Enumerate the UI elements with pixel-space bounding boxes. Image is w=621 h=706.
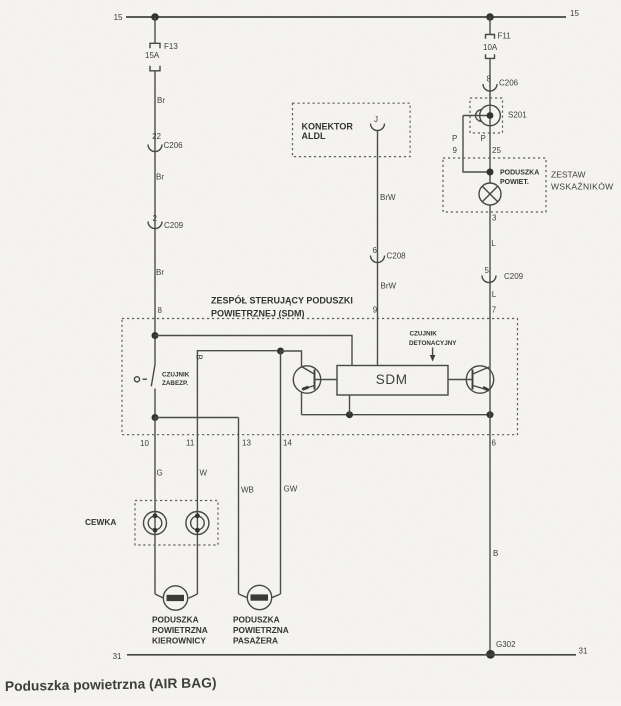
ZESTAW WSKAZNIKOW dashed box (instrument cluster) (443, 158, 546, 212)
label + arrow: CZUJNIK DETONACYJNY (409, 331, 457, 362)
node: ground junction G302 (486, 650, 495, 659)
svg-text:C209: C209 (164, 221, 184, 230)
wire BrW: ALDL J down to SDM pin 9 (377, 131, 379, 319)
svg-text:S201: S201 (508, 111, 527, 120)
svg-text:B: B (493, 549, 498, 558)
svg-text:GW: GW (284, 485, 298, 494)
svg-text:9: 9 (453, 146, 458, 155)
svg-text:31: 31 (113, 652, 122, 661)
svg-text:CZUJNIK: CZUJNIK (410, 331, 438, 338)
svg-text:F13: F13 (164, 42, 178, 51)
svg-text:SDM: SDM (376, 372, 408, 387)
lamp: airbag warning indicator (479, 183, 501, 205)
switch: safety sensor CZUJNIK ZABEZP. (134, 365, 189, 388)
wire: SDM block bottom stub (349, 395, 351, 415)
svg-text:PASAŻERA: PASAŻERA (233, 636, 278, 646)
coil L1 (144, 512, 167, 535)
wire: bottom rail inside SDM (302, 414, 491, 416)
svg-text:BrW: BrW (380, 193, 396, 202)
node: junction bottom rail right (487, 411, 494, 418)
wire: pin 13 lead down to squib 2 (238, 418, 240, 595)
wire: SDM pin 7 through Q2 to rail (489, 319, 491, 415)
svg-text:WB: WB (241, 486, 254, 495)
svg-text:7: 7 (492, 306, 497, 315)
node: junction pin14/Q1 (277, 348, 284, 355)
transistor Q1 (293, 366, 320, 393)
connector C209 pin 2 (148, 214, 184, 230)
svg-text:POWIETRZNA: POWIETRZNA (152, 625, 208, 635)
wire: bus15 to fuse F13 (154, 17, 156, 43)
connector C209 pin 5 (482, 266, 524, 283)
KONEKTOR ALDL dashed box (293, 103, 411, 156)
svg-text:C209: C209 (504, 272, 524, 281)
wire: SDM block to Q2 base (448, 379, 473, 381)
svg-text:10: 10 (140, 439, 149, 448)
svg-text:Br: Br (157, 96, 165, 105)
node: junction on bus 15 right (486, 13, 494, 21)
svg-text:Br: Br (156, 268, 164, 277)
svg-text:G302: G302 (496, 640, 516, 649)
svg-text:POWIET.: POWIET. (500, 179, 529, 186)
svg-text:ZABEZP.: ZABEZP. (162, 380, 188, 387)
svg-text:POWIETRZNA: POWIETRZNA (233, 625, 289, 635)
wire: pin 11 lead up and right to junction (197, 351, 280, 594)
svg-text:WSKAŹNIKÓW: WSKAŹNIKÓW (551, 182, 614, 192)
squib: passenger airbag igniter (239, 585, 281, 609)
net 15 bus (114, 9, 580, 22)
svg-text:PODUSZKA: PODUSZKA (233, 615, 280, 625)
connector C208 pin 6 (371, 246, 407, 263)
node: junction lamp feed (487, 169, 494, 176)
svg-text:8: 8 (158, 306, 163, 315)
node: junction on bus 15 left (151, 13, 159, 21)
wire: Q1 emitter down to bottom rail (301, 392, 303, 415)
wire: ALDL lead entering SDM block (pin 9) (377, 319, 379, 366)
svg-text:C206: C206 (164, 141, 184, 150)
svg-text:2: 2 (153, 214, 158, 223)
wire Br: fuse F13 down through connectors to SDM pin 8 (154, 71, 156, 365)
wire: switch to bottom junction (154, 389, 156, 418)
svg-text:22: 22 (152, 132, 161, 141)
svg-text:ALDL: ALDL (302, 131, 326, 141)
svg-text:Br: Br (156, 173, 164, 182)
label PODUSZKA POWIETRZNA KIEROWNICY (152, 615, 208, 646)
wire: F11 down to lamp (489, 58, 491, 183)
node: junction bottom-left inside SDM (152, 414, 159, 421)
svg-text:L: L (491, 239, 496, 248)
svg-text:15A: 15A (145, 51, 160, 60)
svg-text:13: 13 (242, 439, 251, 448)
svg-text:C208: C208 (387, 252, 407, 261)
svg-text:10A: 10A (483, 43, 498, 52)
wire: junction to Q1 collector (281, 351, 302, 367)
label: ZESPOL STERUJACY PODUSZKI POWIETRZNEJ (SDM) (211, 295, 353, 319)
wire: pin 10 lead down to coil 1 (154, 418, 156, 595)
svg-text:G: G (157, 469, 163, 478)
connector C206 pin 8 (483, 74, 519, 91)
svg-text:5: 5 (485, 266, 490, 275)
svg-text:15: 15 (570, 9, 579, 18)
fuse F11 10A (483, 32, 511, 59)
wire: top rail from junction to SDM block (155, 336, 352, 366)
svg-text:ZESTAW: ZESTAW (551, 170, 585, 180)
svg-text:11: 11 (186, 439, 195, 448)
CEWKA dashed box (clockspring coil) (135, 501, 218, 546)
wire P: branch from S201 to lamp junction (463, 116, 490, 173)
svg-text:31: 31 (579, 647, 588, 656)
svg-text:DETONACYJNY: DETONACYJNY (409, 340, 457, 347)
svg-text:PODUSZKA: PODUSZKA (500, 170, 539, 177)
svg-text:CEWKA: CEWKA (85, 517, 116, 527)
SDM block U1 (337, 366, 448, 396)
label KONEKTOR ALDL (302, 122, 354, 141)
svg-text:CZUJNIK: CZUJNIK (162, 372, 190, 379)
svg-text:P: P (481, 134, 486, 143)
net 31 ground bus (113, 647, 588, 662)
svg-text:POWIETRZNEJ (SDM): POWIETRZNEJ (SDM) (211, 309, 305, 319)
wire: Q1 base to SDM block (315, 379, 338, 381)
svg-text:W: W (200, 469, 208, 478)
svg-text:J: J (374, 115, 378, 124)
svg-text:C206: C206 (499, 79, 519, 88)
svg-text:P: P (452, 134, 457, 143)
svg-text:14: 14 (283, 439, 292, 448)
transistor Q2 (466, 366, 493, 393)
svg-text:ZESPÓŁ STERUJĄCY PODUSZKI: ZESPÓŁ STERUJĄCY PODUSZKI (211, 295, 353, 306)
node: junction under SDM block (346, 411, 353, 418)
connector C206 pin 22 (148, 132, 183, 152)
svg-text:25: 25 (492, 146, 501, 155)
svg-text:6: 6 (373, 246, 378, 255)
SDM module dashed box (122, 319, 518, 435)
squib: driver airbag igniter (155, 586, 197, 610)
connector J (ALDL) (371, 115, 385, 131)
wire: bus15 to fuse F11 (489, 17, 491, 35)
svg-text:B: B (194, 355, 203, 360)
svg-text:15: 15 (114, 13, 123, 22)
svg-text:6: 6 (492, 439, 497, 448)
wire L: lamp down to SDM pin 7 (489, 205, 491, 319)
svg-text:F11: F11 (498, 32, 512, 41)
svg-text:PODUSZKA: PODUSZKA (152, 615, 199, 625)
coil L2 (186, 512, 209, 535)
wire: pin 14 lead down to squib 2 (280, 351, 282, 594)
svg-text:L: L (492, 290, 497, 299)
node: junction top-left inside SDM (152, 332, 159, 339)
label PODUSZKA POWIETRZNA PASAZERA (233, 615, 289, 646)
label PODUSZKA POWIET. (500, 170, 539, 187)
svg-text:BrW: BrW (381, 282, 397, 291)
label ZESTAW WSKAZNIKOW (551, 170, 614, 192)
fuse F13 15A (145, 42, 178, 71)
splice S201 (463, 98, 527, 133)
wire B: SDM pin 6 down to ground G302 (489, 415, 491, 655)
svg-text:KIEROWNICY: KIEROWNICY (152, 636, 206, 646)
svg-text:3: 3 (492, 214, 497, 223)
svg-text:8: 8 (487, 74, 492, 83)
wire: bottom-left horizontal to pin 13 lead (155, 417, 239, 419)
